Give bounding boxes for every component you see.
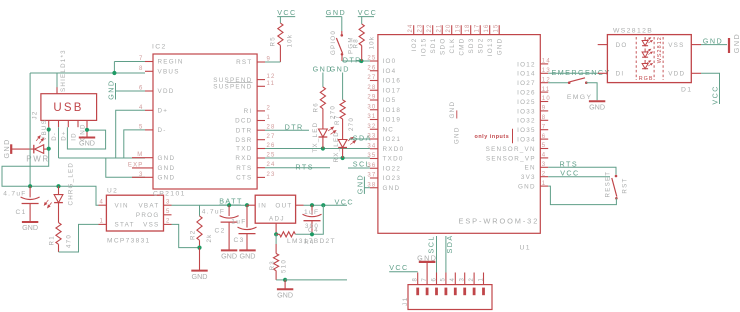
- wire EMERGENCY: [548, 72, 598, 74]
- svg-text:IO34: IO34: [517, 137, 536, 144]
- svg-text:3: 3: [460, 277, 466, 282]
- svg-text:8: 8: [139, 66, 144, 72]
- junction R4 riser: [321, 203, 325, 207]
- svg-text:D-: D-: [51, 132, 58, 141]
- LED TX: [319, 129, 328, 137]
- svg-text:R4: R4: [304, 239, 314, 246]
- svg-text:34: 34: [367, 143, 376, 149]
- USB shield pin: [56, 87, 58, 94]
- svg-text:U1: U1: [520, 245, 531, 252]
- svg-text:16: 16: [484, 23, 490, 32]
- wire BATT rail: [200, 204, 248, 206]
- svg-text:21: 21: [437, 23, 443, 32]
- svg-text:1: 1: [267, 115, 272, 121]
- svg-text:10k: 10k: [368, 36, 375, 50]
- svg-text:EXP: EXP: [128, 162, 144, 168]
- wire M-pin rail: [59, 157, 146, 159]
- svg-text:R3: R3: [269, 260, 276, 270]
- resistor R5: [278, 23, 283, 45]
- svg-text:DO: DO: [616, 42, 628, 49]
- svg-text:GND: GND: [240, 252, 256, 261]
- svg-text:SENSOR_VP: SENSOR_VP: [486, 155, 536, 162]
- svg-text:1: 1: [542, 181, 547, 187]
- capacitor C1: [29, 186, 31, 197]
- svg-text:17: 17: [475, 23, 481, 32]
- svg-text:MCP73831: MCP73831: [107, 237, 151, 244]
- svg-text:CP2101: CP2101: [153, 190, 186, 197]
- svg-text:DTR: DTR: [343, 56, 362, 65]
- svg-text:470: 470: [66, 234, 73, 248]
- junction R3 gnd: [283, 278, 287, 282]
- svg-text:5: 5: [166, 209, 171, 215]
- J1 pin 7: [426, 273, 428, 285]
- junction R8: [359, 59, 363, 63]
- svg-text:RESET: RESET: [604, 171, 611, 198]
- ground R2: [191, 270, 207, 272]
- svg-text:18: 18: [465, 23, 471, 32]
- svg-text:R6: R6: [313, 102, 320, 112]
- svg-text:IO25: IO25: [517, 99, 536, 106]
- net label VCC at J1: [389, 271, 418, 273]
- wire D- drop: [58, 127, 60, 158]
- wire DTR to IO0: [342, 60, 370, 62]
- wire GND to VDD: [116, 90, 146, 92]
- svg-text:GND: GND: [589, 103, 605, 112]
- svg-text:6: 6: [542, 134, 547, 140]
- junction R2 bottom: [197, 246, 201, 250]
- svg-text:IC2: IC2: [152, 44, 167, 51]
- IC2 left pins: [145, 61, 153, 63]
- svg-text:REGIN: REGIN: [158, 59, 184, 66]
- RX LED arrows: [347, 136, 356, 145]
- svg-text:GND: GND: [2, 138, 11, 158]
- svg-text:R2: R2: [190, 230, 197, 240]
- ground symbol rotated right: [728, 38, 730, 53]
- svg-text:DTR: DTR: [236, 127, 253, 134]
- svg-text:SDO: SDO: [440, 38, 447, 55]
- J1 pin 6: [436, 273, 438, 285]
- svg-text:24: 24: [408, 23, 414, 32]
- svg-text:19: 19: [456, 23, 462, 32]
- svg-text:10k: 10k: [287, 34, 294, 48]
- svg-text:EN: EN: [525, 165, 536, 172]
- LED module D1 WS2812B: [607, 35, 691, 83]
- svg-text:6: 6: [431, 277, 437, 282]
- svg-text:3V3: 3V3: [521, 174, 536, 181]
- svg-text:ESP-WROOM-32: ESP-WROOM-32: [459, 216, 540, 225]
- junction ADJ: [274, 232, 278, 236]
- wire VBUS net: [2, 127, 99, 205]
- net label GND at VSS: [701, 44, 727, 46]
- wire VBUS to pin8: [30, 72, 145, 74]
- svg-text:IO19: IO19: [383, 117, 402, 124]
- svg-text:GPIO0: GPIO0: [330, 30, 337, 55]
- svg-text:IO14: IO14: [517, 71, 536, 78]
- svg-text:SCL: SCL: [426, 235, 435, 253]
- svg-text:C3: C3: [234, 237, 245, 244]
- capacitor C2 4.7uF: [228, 205, 230, 216]
- wire RTS stub: [265, 167, 330, 169]
- ground C2: [221, 249, 237, 251]
- svg-text:GND: GND: [192, 272, 208, 281]
- LM317 OUT pin: [296, 204, 304, 206]
- wire D- to IC2 pin5: [124, 130, 145, 158]
- svg-text:2k: 2k: [206, 233, 213, 242]
- svg-text:BATT: BATT: [219, 197, 243, 206]
- TX LED arrows: [328, 126, 337, 135]
- svg-text:GND: GND: [221, 252, 237, 261]
- svg-text:GND: GND: [158, 155, 176, 162]
- LED PWR: [11, 148, 34, 150]
- svg-text:VCC: VCC: [277, 8, 297, 17]
- resistor R1: [56, 223, 61, 245]
- svg-text:SHIELD1*3: SHIELD1*3: [60, 49, 67, 92]
- svg-text:VBAT: VBAT: [138, 202, 159, 209]
- wire gnd rail: [285, 279, 347, 281]
- junction C1: [28, 184, 32, 188]
- svg-text:D+: D+: [61, 130, 68, 141]
- svg-text:2: 2: [469, 277, 475, 282]
- junction RX LED: [341, 156, 345, 160]
- svg-text:M: M: [137, 152, 143, 158]
- resistor R8 10k: [359, 24, 364, 46]
- svg-text:4: 4: [450, 277, 456, 282]
- svg-text:IO13: IO13: [487, 38, 494, 57]
- USB bottom pins: [48, 120, 50, 127]
- svg-text:8: 8: [542, 115, 547, 121]
- svg-text:VCC: VCC: [560, 168, 580, 177]
- svg-text:IO0: IO0: [383, 58, 397, 65]
- svg-text:510: 510: [281, 259, 288, 273]
- switch RESET RST: [615, 175, 618, 178]
- wire reset to GND pin: [548, 186, 616, 205]
- wire U2 pin2 to R2: [172, 224, 200, 247]
- svg-text:RGB: RGB: [639, 76, 654, 82]
- svg-text:IO4: IO4: [383, 68, 397, 75]
- LM317 ADJ pin: [275, 223, 277, 234]
- svg-text:RST: RST: [236, 59, 252, 66]
- svg-text:DCD: DCD: [235, 118, 252, 125]
- svg-text:2: 2: [267, 105, 272, 111]
- J1 pin 1: [483, 273, 485, 285]
- svg-text:15: 15: [494, 23, 500, 32]
- IC U2 MCP73831: [106, 195, 163, 231]
- svg-text:IO16: IO16: [383, 78, 402, 85]
- svg-text:C1: C1: [16, 209, 27, 216]
- CHRG LED arrows: [44, 199, 53, 208]
- junction VBUS pin: [47, 127, 51, 131]
- svg-text:DSR: DSR: [235, 137, 252, 144]
- DI pin: [598, 72, 608, 74]
- IC2 right pins: [257, 61, 265, 63]
- svg-text:VCC: VCC: [335, 197, 355, 206]
- svg-text:IO21: IO21: [383, 136, 402, 143]
- svg-text:ID: ID: [70, 132, 77, 141]
- wire R4 to OUT: [295, 205, 323, 234]
- ground C3: [239, 249, 255, 251]
- switch GPIO0 PGM: [341, 31, 343, 34]
- svg-text:IO32: IO32: [517, 118, 536, 125]
- svg-text:GND: GND: [454, 126, 461, 144]
- junction CHRG LED: [56, 184, 60, 188]
- svg-text:IO33: IO33: [517, 108, 536, 115]
- svg-text:IO18: IO18: [383, 107, 402, 114]
- connector J1: [408, 285, 492, 310]
- svg-text:23: 23: [267, 172, 276, 178]
- svg-text:26: 26: [367, 65, 376, 71]
- svg-text:only inputs: only inputs: [475, 134, 510, 140]
- svg-text:STAT: STAT: [115, 222, 135, 229]
- svg-text:TXD: TXD: [236, 146, 252, 153]
- svg-text:R5: R5: [270, 36, 277, 46]
- ground R3: [277, 288, 293, 290]
- wire SCL stub: [348, 167, 370, 169]
- U2 pins: [99, 204, 107, 206]
- LED RX: [338, 140, 347, 148]
- svg-text:OUT: OUT: [275, 202, 292, 209]
- svg-text:SENSOR_VN: SENSOR_VN: [486, 146, 536, 153]
- svg-text:3: 3: [139, 172, 144, 178]
- svg-text:12: 12: [267, 74, 276, 80]
- svg-text:30: 30: [367, 104, 376, 110]
- svg-text:WS2812: WS2812: [657, 36, 663, 63]
- svg-text:29: 29: [367, 95, 376, 101]
- wire VCC out: [304, 204, 348, 206]
- svg-text:5: 5: [139, 124, 144, 130]
- svg-text:32: 32: [367, 124, 376, 130]
- svg-text:37: 37: [367, 173, 376, 179]
- svg-text:36: 36: [367, 163, 376, 169]
- wire USB GND loop: [67, 127, 105, 149]
- junction TX LED: [321, 146, 325, 150]
- wire TXD net: [265, 148, 370, 150]
- svg-text:RXD: RXD: [235, 155, 252, 162]
- capacitor C3 1uF: [246, 205, 248, 227]
- svg-text:GND: GND: [277, 290, 293, 299]
- ground at PWR LED: [10, 144, 12, 154]
- wire to IC2 pin3: [106, 158, 145, 177]
- svg-text:27: 27: [367, 75, 376, 81]
- junction C2: [227, 203, 231, 207]
- svg-text:USB: USB: [53, 102, 83, 114]
- svg-text:IO27: IO27: [517, 80, 536, 87]
- svg-text:IO22: IO22: [383, 165, 402, 172]
- svg-text:23: 23: [418, 23, 424, 32]
- svg-text:14: 14: [542, 59, 551, 65]
- module U1 ESP-WROOM-32: [378, 35, 540, 234]
- svg-text:VSS: VSS: [668, 42, 684, 49]
- svg-text:IO12: IO12: [517, 61, 536, 68]
- svg-text:7: 7: [542, 124, 547, 130]
- svg-text:R8: R8: [352, 38, 359, 48]
- svg-text:EMGY: EMGY: [567, 94, 592, 101]
- svg-text:VCC: VCC: [389, 263, 409, 272]
- svg-text:U2: U2: [107, 187, 118, 194]
- SUSPEND overline: [227, 81, 253, 83]
- svg-text:ADJ: ADJ: [269, 215, 285, 222]
- svg-text:GND: GND: [79, 139, 95, 148]
- VDD pin: [691, 72, 701, 74]
- svg-text:CHRG_LED: CHRG_LED: [68, 162, 75, 206]
- VSS pin: [691, 44, 701, 46]
- svg-text:D-: D-: [158, 127, 167, 134]
- resistor R2: [197, 216, 202, 240]
- svg-text:VDD: VDD: [668, 71, 685, 78]
- svg-text:GND: GND: [449, 101, 456, 119]
- svg-text:IO26: IO26: [517, 90, 536, 97]
- junction C3: [245, 203, 249, 207]
- wire to pin7: [114, 61, 145, 63]
- svg-text:31: 31: [367, 114, 376, 120]
- svg-text:3: 3: [542, 162, 547, 168]
- svg-text:20: 20: [446, 23, 452, 32]
- svg-text:NC: NC: [383, 126, 395, 133]
- wire RXD net: [265, 157, 370, 159]
- USB connector J2: [41, 94, 97, 121]
- svg-text:RTS: RTS: [236, 165, 252, 172]
- resistor R6 270: [320, 87, 325, 109]
- svg-text:CTS: CTS: [236, 175, 252, 182]
- svg-text:28: 28: [367, 85, 376, 91]
- svg-text:10: 10: [542, 96, 551, 102]
- svg-text:9: 9: [542, 106, 547, 112]
- svg-text:TX_LED: TX_LED: [312, 122, 319, 153]
- junction USB GND pin: [85, 128, 89, 132]
- junction PWR LED: [47, 147, 51, 151]
- svg-text:DI: DI: [616, 71, 625, 78]
- svg-text:300: 300: [305, 223, 319, 230]
- GND supply below USB GND pin: [86, 127, 88, 137]
- svg-text:D1: D1: [681, 86, 692, 93]
- svg-text:TXD0: TXD0: [383, 156, 404, 163]
- svg-text:GND: GND: [22, 223, 38, 232]
- wire BATT from U2 pin3: [172, 204, 200, 206]
- ground EMGY: [589, 100, 605, 102]
- svg-text:5: 5: [441, 277, 447, 282]
- LED CHRG_LED: [58, 186, 60, 194]
- wire VBUS riser to REGIN: [29, 73, 31, 186]
- wire RTS to reset switch: [548, 167, 616, 175]
- svg-text:DTR: DTR: [285, 122, 304, 131]
- svg-text:7: 7: [422, 277, 428, 282]
- svg-text:4.7uF: 4.7uF: [202, 209, 225, 216]
- svg-text:1uF: 1uF: [231, 219, 246, 226]
- svg-text:SD2: SD2: [478, 38, 485, 54]
- svg-text:3: 3: [166, 199, 171, 205]
- junction pin7/8: [112, 71, 116, 75]
- svg-text:4: 4: [139, 105, 144, 111]
- svg-text:GND: GND: [732, 33, 740, 53]
- IC IC2 CP2101: [153, 54, 257, 189]
- svg-text:PROG: PROG: [136, 212, 160, 219]
- svg-text:GND: GND: [158, 175, 176, 182]
- wire SDA to J1 pin5: [445, 236, 447, 273]
- WS2812B internal LEDs: [635, 37, 637, 80]
- capacitor C4 1uF: [311, 205, 313, 214]
- DO pin: [598, 44, 608, 46]
- net label GND rotated at ESP pin38: [363, 177, 365, 194]
- svg-text:WS2812B: WS2812B: [613, 27, 653, 34]
- svg-text:VCC: VCC: [358, 8, 378, 17]
- svg-text:SD3: SD3: [468, 38, 475, 54]
- svg-text:VSS: VSS: [143, 222, 159, 229]
- J1 pin 2: [473, 273, 475, 285]
- svg-text:IN: IN: [258, 202, 267, 209]
- svg-text:CMD: CMD: [459, 38, 466, 56]
- svg-text:VBUS: VBUS: [158, 69, 180, 76]
- ground C1: [22, 221, 38, 223]
- svg-text:GND: GND: [355, 174, 364, 194]
- J1 pin 4: [454, 273, 456, 285]
- svg-text:SDA: SDA: [445, 234, 454, 253]
- wire SDA stub: [349, 138, 370, 140]
- svg-text:GND: GND: [383, 185, 401, 192]
- resistor R3 510: [275, 234, 277, 244]
- wire VCC at 3V3: [548, 176, 610, 178]
- svg-text:1: 1: [99, 219, 104, 225]
- svg-text:SD1: SD1: [430, 38, 437, 54]
- J1 pin 8: [417, 273, 419, 285]
- svg-text:33: 33: [367, 134, 376, 140]
- wire RST to R5: [265, 61, 280, 63]
- svg-text:35: 35: [367, 153, 376, 159]
- wire SCL to J1 pin6: [436, 236, 438, 273]
- svg-text:4.7uF: 4.7uF: [3, 191, 26, 198]
- svg-text:GND: GND: [703, 36, 723, 45]
- svg-text:25: 25: [367, 56, 376, 62]
- svg-text:4: 4: [99, 199, 104, 205]
- regulator LM317BD2T: [255, 195, 295, 223]
- wire DTR stub: [265, 129, 309, 131]
- junction C4 bottom: [310, 232, 314, 236]
- svg-text:IO23: IO23: [383, 175, 402, 182]
- LM317 IN pin: [247, 204, 255, 206]
- svg-text:RTS: RTS: [295, 163, 314, 172]
- svg-text:VCC: VCC: [711, 85, 720, 105]
- svg-text:11: 11: [267, 81, 276, 87]
- svg-text:11: 11: [542, 87, 551, 93]
- J1 pin 3: [464, 273, 466, 285]
- svg-text:GND: GND: [518, 184, 536, 191]
- svg-text:2: 2: [542, 171, 547, 177]
- svg-text:R1: R1: [49, 235, 56, 245]
- svg-text:D+: D+: [158, 108, 169, 115]
- ESP left pins: [370, 60, 378, 62]
- resistor R7 270: [340, 100, 345, 119]
- junction C4: [310, 203, 314, 207]
- svg-text:RTS: RTS: [560, 159, 579, 168]
- svg-text:VDD: VDD: [158, 88, 175, 95]
- PWR LED arrows: [35, 135, 44, 144]
- svg-text:22: 22: [427, 23, 433, 32]
- svg-text:J2: J2: [32, 110, 39, 119]
- svg-text:GND: GND: [497, 38, 504, 56]
- svg-text:GND: GND: [158, 165, 176, 172]
- svg-text:4: 4: [542, 153, 547, 159]
- J1 pin 5: [445, 273, 447, 285]
- svg-text:GND: GND: [330, 65, 350, 74]
- svg-text:VIN: VIN: [115, 202, 129, 209]
- svg-text:RX_LED: RX_LED: [333, 131, 340, 163]
- svg-text:1uF: 1uF: [304, 209, 319, 216]
- svg-text:SUSPEND: SUSPEND: [213, 84, 252, 91]
- svg-text:J1: J1: [402, 296, 409, 306]
- wire D+ to IC2 pin4: [116, 110, 145, 158]
- svg-text:EMERGENCY: EMERGENCY: [552, 68, 611, 77]
- svg-text:RST: RST: [622, 177, 629, 193]
- svg-text:IO2: IO2: [411, 38, 418, 52]
- svg-text:RI: RI: [244, 108, 253, 115]
